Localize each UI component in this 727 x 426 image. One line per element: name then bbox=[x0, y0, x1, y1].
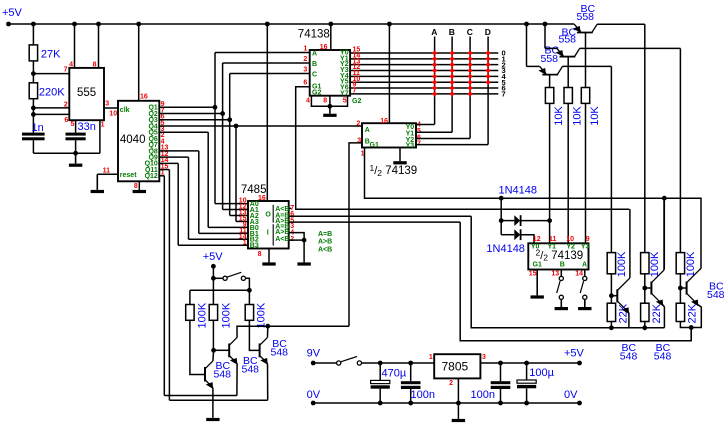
svg-text:+5V: +5V bbox=[2, 7, 23, 19]
svg-text:4: 4 bbox=[69, 61, 73, 68]
svg-text:1N4148: 1N4148 bbox=[486, 243, 525, 255]
svg-text:10: 10 bbox=[109, 110, 117, 117]
svg-text:7: 7 bbox=[502, 90, 506, 99]
svg-text:6: 6 bbox=[64, 117, 68, 124]
svg-text:16: 16 bbox=[140, 94, 148, 101]
svg-text:B: B bbox=[312, 61, 317, 68]
svg-text:A: A bbox=[582, 261, 587, 268]
svg-text:A>B: A>B bbox=[275, 229, 289, 236]
svg-text:G1: G1 bbox=[370, 142, 379, 149]
svg-text:548: 548 bbox=[214, 368, 232, 380]
svg-text:7805: 7805 bbox=[442, 360, 469, 374]
svg-text:558: 558 bbox=[559, 34, 577, 46]
svg-text:100K: 100K bbox=[649, 251, 661, 277]
svg-text:A=B: A=B bbox=[318, 231, 332, 238]
svg-text:548: 548 bbox=[242, 363, 260, 375]
svg-text:548: 548 bbox=[707, 289, 725, 301]
svg-text:10: 10 bbox=[566, 236, 574, 243]
svg-text:33n: 33n bbox=[78, 121, 96, 133]
svg-text:16: 16 bbox=[380, 118, 388, 125]
svg-text:10K: 10K bbox=[571, 106, 583, 126]
svg-text:7: 7 bbox=[64, 66, 68, 73]
svg-text:0V: 0V bbox=[564, 389, 578, 401]
svg-text:1: 1 bbox=[101, 122, 105, 129]
svg-text:G2: G2 bbox=[352, 98, 361, 105]
svg-text:B3: B3 bbox=[250, 243, 259, 250]
svg-text:Q12: Q12 bbox=[145, 173, 158, 180]
svg-text:A: A bbox=[312, 51, 317, 58]
svg-text:B: B bbox=[449, 27, 455, 37]
svg-text:100K: 100K bbox=[220, 302, 232, 328]
svg-text:220K: 220K bbox=[39, 87, 65, 99]
svg-text:1N4148: 1N4148 bbox=[499, 185, 538, 197]
svg-text:A>B: A>B bbox=[318, 239, 332, 246]
svg-text:Y7: Y7 bbox=[340, 90, 349, 97]
svg-text:100K: 100K bbox=[616, 251, 628, 277]
svg-text:+5V: +5V bbox=[564, 347, 585, 359]
svg-text:100µ: 100µ bbox=[529, 367, 554, 379]
svg-text:2: 2 bbox=[64, 102, 68, 109]
svg-text:22K: 22K bbox=[651, 303, 663, 323]
svg-text:1: 1 bbox=[429, 354, 433, 361]
svg-text:A<B: A<B bbox=[318, 247, 332, 254]
svg-text:27K: 27K bbox=[41, 49, 61, 61]
svg-text:A<B: A<B bbox=[275, 236, 289, 243]
svg-text:I: I bbox=[267, 230, 269, 237]
svg-text:10K: 10K bbox=[589, 106, 601, 126]
svg-text:G1: G1 bbox=[533, 261, 542, 268]
svg-text:4040: 4040 bbox=[120, 134, 146, 146]
svg-text:100n: 100n bbox=[411, 389, 435, 401]
svg-text:15: 15 bbox=[529, 270, 537, 277]
svg-text:C: C bbox=[467, 27, 473, 37]
svg-text:8: 8 bbox=[93, 61, 97, 68]
svg-text:548: 548 bbox=[620, 351, 638, 363]
svg-text:0V: 0V bbox=[307, 389, 321, 401]
svg-text:3: 3 bbox=[105, 101, 109, 108]
svg-text:clk: clk bbox=[120, 107, 130, 114]
svg-text:2: 2 bbox=[449, 380, 453, 387]
svg-text:B: B bbox=[560, 261, 565, 268]
svg-text:22K: 22K bbox=[686, 303, 698, 323]
svg-text:1: 1 bbox=[303, 45, 307, 52]
svg-text:5: 5 bbox=[70, 121, 74, 128]
svg-text:2: 2 bbox=[356, 121, 360, 128]
svg-text:reset: reset bbox=[120, 172, 137, 179]
svg-text:8: 8 bbox=[323, 98, 327, 105]
svg-text:4: 4 bbox=[306, 98, 310, 105]
svg-text:16: 16 bbox=[320, 44, 328, 51]
svg-text:548: 548 bbox=[271, 346, 289, 358]
svg-text:555: 555 bbox=[77, 87, 96, 99]
svg-text:1: 1 bbox=[243, 239, 247, 246]
svg-text:D: D bbox=[485, 27, 491, 37]
svg-text:9: 9 bbox=[586, 236, 590, 243]
svg-text:470µ: 470µ bbox=[382, 368, 407, 380]
svg-text:100n: 100n bbox=[471, 389, 495, 401]
svg-text:11: 11 bbox=[103, 168, 111, 175]
svg-text:8: 8 bbox=[134, 183, 138, 190]
svg-text:10K: 10K bbox=[553, 106, 565, 126]
svg-text:C: C bbox=[312, 72, 317, 79]
svg-text:3: 3 bbox=[482, 354, 486, 361]
svg-text:100K: 100K bbox=[256, 302, 268, 328]
svg-text:100K: 100K bbox=[197, 302, 209, 328]
svg-text:+5V: +5V bbox=[203, 251, 224, 263]
svg-text:G2: G2 bbox=[312, 89, 321, 96]
svg-text:12: 12 bbox=[533, 236, 541, 243]
svg-text:14: 14 bbox=[575, 270, 583, 277]
svg-text:558: 558 bbox=[577, 11, 595, 23]
svg-text:6: 6 bbox=[303, 80, 307, 87]
svg-text:7485: 7485 bbox=[241, 184, 267, 196]
svg-text:74138: 74138 bbox=[298, 29, 330, 41]
svg-text:548: 548 bbox=[654, 351, 672, 363]
svg-text:1/2 74139: 1/2 74139 bbox=[370, 163, 418, 178]
svg-text:13: 13 bbox=[551, 270, 559, 277]
svg-text:A: A bbox=[431, 27, 437, 37]
svg-text:3: 3 bbox=[303, 66, 307, 73]
svg-text:O: O bbox=[265, 211, 271, 218]
svg-text:100K: 100K bbox=[685, 251, 697, 277]
svg-text:1n: 1n bbox=[32, 122, 44, 134]
svg-text:7: 7 bbox=[353, 88, 357, 95]
svg-text:11: 11 bbox=[549, 236, 557, 243]
svg-text:Y3: Y3 bbox=[406, 142, 415, 149]
svg-text:5: 5 bbox=[343, 98, 347, 105]
svg-text:8: 8 bbox=[258, 251, 262, 258]
svg-text:22K: 22K bbox=[618, 303, 630, 323]
svg-text:9V: 9V bbox=[307, 347, 321, 359]
svg-text:558: 558 bbox=[541, 53, 559, 65]
svg-text:A: A bbox=[365, 127, 370, 134]
svg-text:16: 16 bbox=[258, 195, 266, 202]
svg-text:2: 2 bbox=[303, 56, 307, 63]
